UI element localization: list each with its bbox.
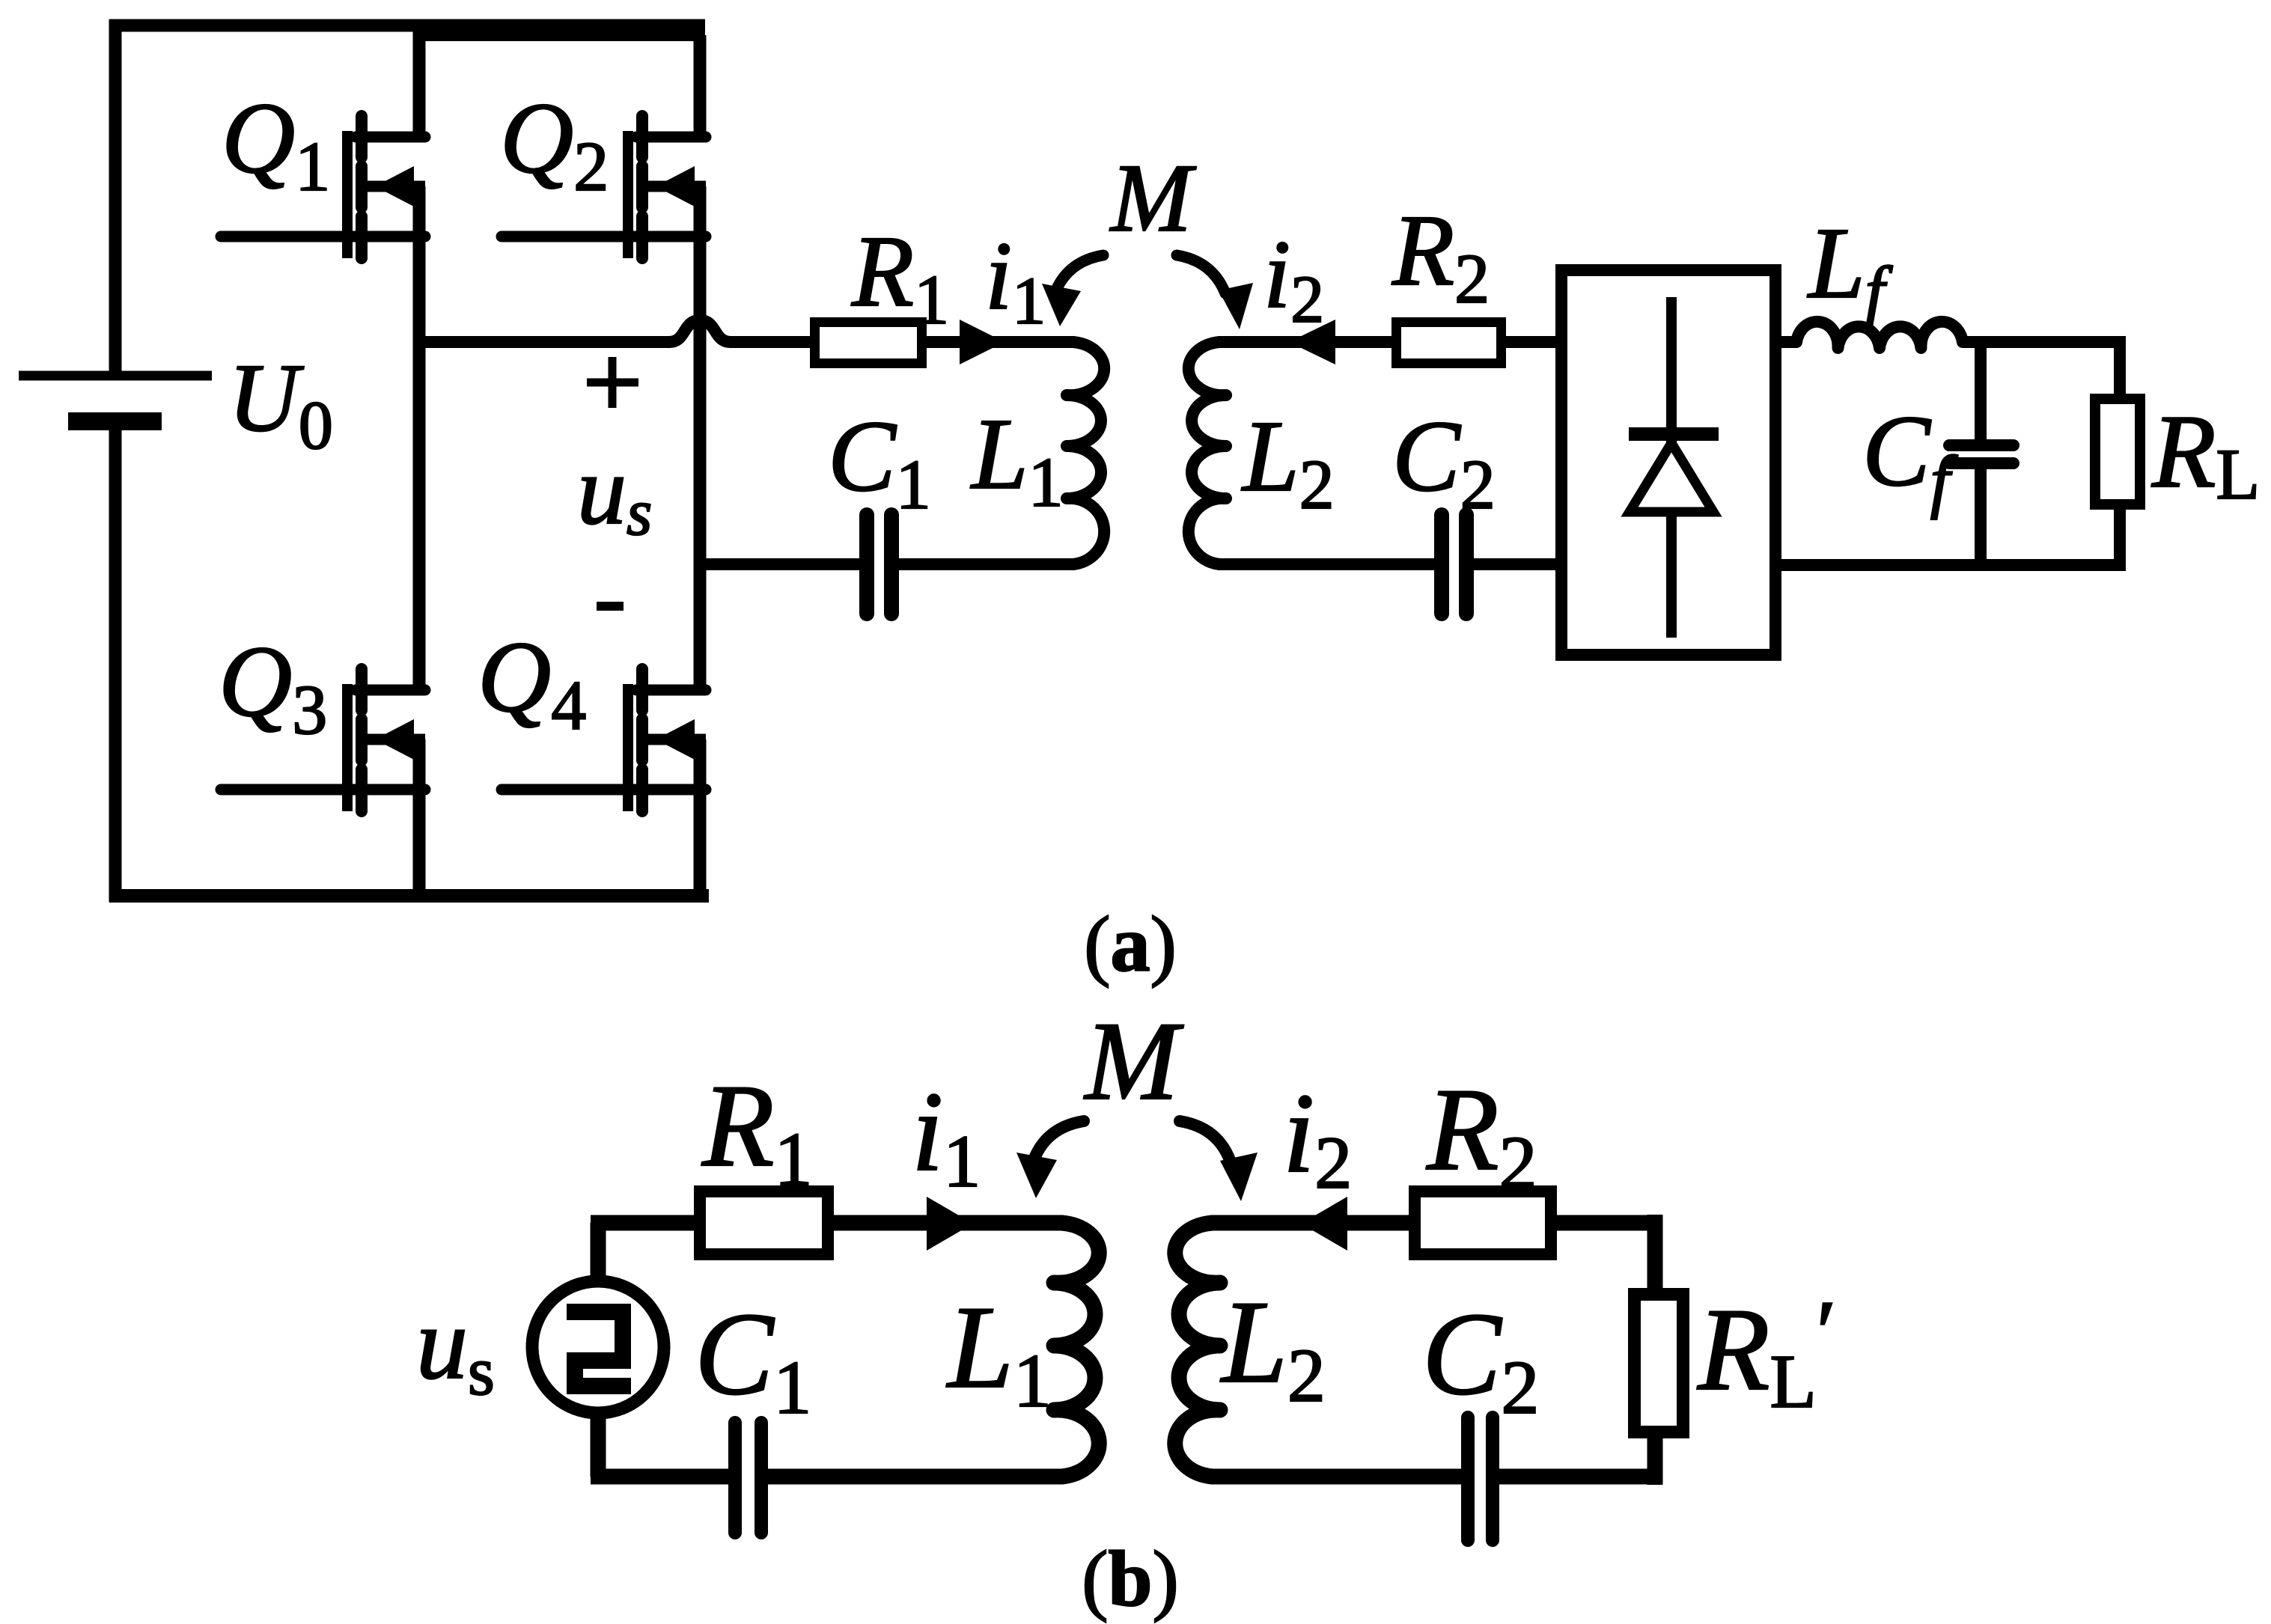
arrow M right [1177, 255, 1253, 329]
wire: R2 to rectifier [1506, 336, 1555, 348]
wire: left leg upper (to Q1 drain) [413, 25, 426, 137]
battery U0 [19, 376, 212, 421]
arrow M left [1042, 255, 1103, 326]
arrow i1 (b) [927, 1197, 973, 1251]
wire: bridge top rail (inner, right half-bridge) [414, 29, 705, 41]
svg-text:M: M [1084, 999, 1184, 1123]
wire: inverter output (hump over right leg) [419, 320, 810, 342]
resistor R1 (b) [700, 1191, 828, 1254]
wire: L2 top to R2 [1218, 336, 1391, 348]
wire: bridge bottom rail [109, 889, 709, 903]
label + (us polarity) [587, 357, 638, 408]
capacitor C2 [1442, 515, 1466, 614]
wire: L2 top to R2 (b) [1210, 1215, 1409, 1231]
resistor RL' (b) [1635, 1295, 1683, 1432]
wire: bottom right (b) [1497, 1469, 1662, 1485]
transistor Q4 [502, 669, 706, 811]
rectifier bridge box [1561, 270, 1775, 655]
diode D (inside rectifier) [1629, 297, 1719, 638]
svg-text:(a): (a) [1084, 900, 1177, 988]
wire: L2 bottom to C2 [1218, 558, 1436, 570]
label - (us polarity) [597, 602, 624, 611]
wire: bottom left (b) [591, 1469, 730, 1485]
resistor RL [2095, 399, 2140, 504]
wire: top left (b) [591, 1215, 694, 1231]
arrow M left (b) [1016, 1121, 1084, 1198]
wire: rectifier to Lf [1781, 336, 1798, 348]
arrow M right (b) [1180, 1121, 1258, 1201]
svg-text:M: M [1109, 144, 1197, 252]
svg-text:(b): (b) [1082, 1535, 1179, 1623]
capacitor C1 [867, 515, 891, 614]
wire: source bottom lead (b) [591, 1410, 606, 1477]
wire: right leg upper (to Q2 drain) [694, 35, 707, 137]
wire: R1 to L1 [927, 336, 1075, 348]
wire: DC bus left edge lower [109, 426, 122, 902]
wire: Lf to RL branch (top) [1963, 336, 2120, 348]
resistor R2 (b) [1415, 1191, 1551, 1254]
wire: primary bottom (right leg to C1) [700, 558, 861, 570]
wire: right leg lower (Q4 source to bottom rail) [694, 739, 707, 896]
wire: left leg lower (Q3 source to bottom rail) [413, 739, 426, 896]
arrow i2 (b) [1301, 1197, 1347, 1251]
wire: R2 to right corner (b) [1557, 1215, 1662, 1231]
wire: left leg middle (Q1 source to Q3 drain) [413, 186, 426, 690]
wire: C1 to L1 bottom (b) [767, 1469, 1064, 1485]
wire: top corner down to RL [2114, 336, 2126, 394]
wire: L2 bottom to C2 (b) [1210, 1469, 1463, 1485]
inductor L2 [1189, 342, 1226, 564]
inductor L1 (b) [1054, 1223, 1099, 1477]
capacitor C1 (b) [735, 1423, 761, 1533]
wire: right leg middle (Q2 source to Q4 drain) [694, 186, 707, 690]
wire: DC bus left edge upper [109, 19, 122, 372]
AC source us [532, 1281, 664, 1413]
capacitor C2 (b) [1468, 1417, 1493, 1540]
wire: RL' to bottom (b) [1647, 1438, 1663, 1485]
inductor Lf [1796, 322, 1963, 348]
transistor Q1 [221, 116, 425, 258]
wire: C2 to rectifier [1472, 558, 1555, 570]
wire: output bottom rail [1781, 559, 2126, 571]
inductor L2 (b) [1175, 1223, 1220, 1477]
arrow i2 (current direction) [1289, 320, 1335, 364]
wire: bridge top rail (outer) [109, 19, 705, 32]
resistor R1 [815, 323, 922, 364]
wire: Cf upper lead [1975, 337, 1987, 442]
inductor L1 [1067, 342, 1104, 564]
capacitor Cf [1949, 445, 2014, 463]
wire: corner down to RL' (b) [1647, 1215, 1663, 1289]
transistor Q2 [502, 116, 706, 258]
transistor Q3 [221, 669, 425, 811]
arrow i1 (current direction) [960, 320, 1005, 364]
wire: C1 to L1 bottom [897, 558, 1075, 570]
wire: source top lead (b) [591, 1223, 606, 1285]
wire: Cf lower lead [1975, 469, 1987, 571]
wire: R1 to L1 (b) [834, 1215, 1064, 1231]
resistor R2 [1397, 323, 1502, 364]
wire: RL to bottom rail [2114, 510, 2126, 571]
